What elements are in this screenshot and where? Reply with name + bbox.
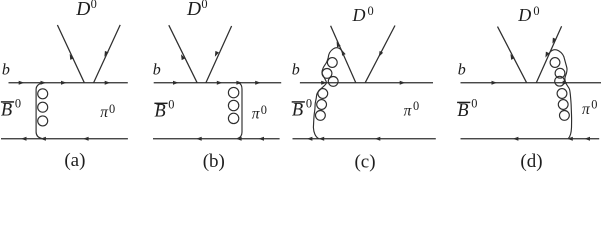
svg-text:B: B xyxy=(154,101,165,121)
gluon (a) loop 2 xyxy=(38,102,48,112)
svg-text:0: 0 xyxy=(201,0,207,11)
svg-text:b: b xyxy=(153,61,161,78)
b quark line (c) xyxy=(300,82,433,84)
arrow on b line (a) 2 at gluon vertex xyxy=(41,81,47,85)
gluon (d) rail xyxy=(549,50,572,139)
arrow on ubar leg (d) upper xyxy=(552,38,556,44)
svg-text:(c): (c) xyxy=(354,151,375,172)
arrow on c leg (b) xyxy=(181,54,185,60)
svg-text:D: D xyxy=(186,0,201,20)
arrow on b line (a) 3 xyxy=(61,81,67,85)
gluon (c) loop 1 xyxy=(327,58,337,68)
gluon (d) loop 1 xyxy=(550,58,560,68)
label B0bar bar (d) xyxy=(457,102,470,103)
svg-text:π: π xyxy=(404,102,413,119)
arrow on u line (b) 4 xyxy=(255,81,261,85)
gluon (d) loop 5 xyxy=(558,100,568,110)
dbar spectator line (b) xyxy=(153,138,280,140)
gluon (c) loop 4 xyxy=(318,89,328,99)
svg-text:b: b xyxy=(2,61,10,78)
svg-text:0: 0 xyxy=(261,103,267,117)
svg-text:B: B xyxy=(457,101,468,121)
svg-text:0: 0 xyxy=(15,96,21,110)
svg-text:(a): (a) xyxy=(64,150,85,171)
c quark leg (d) xyxy=(498,27,527,83)
arrow on dbar line (b) 2 at gluon vertex xyxy=(236,137,242,141)
gluon (b) loop 3 xyxy=(228,113,238,123)
svg-text:b: b xyxy=(292,61,300,78)
arrow on dbar line (a) 3 xyxy=(83,137,89,141)
arrow on dbar line (c) 1 xyxy=(307,137,313,141)
arrow on dbar line (b) 3 xyxy=(258,137,264,141)
dbar spectator line (a) xyxy=(1,138,128,140)
svg-text:π: π xyxy=(582,101,591,118)
arrow on dbar line (c) 2 at gluon vertex xyxy=(319,137,325,141)
svg-text:D: D xyxy=(352,5,366,25)
arrow on u line (c) after vertex xyxy=(400,81,406,85)
b quark line (a) xyxy=(9,82,128,84)
gluon (c) loop 2 xyxy=(322,69,332,79)
svg-text:0: 0 xyxy=(168,98,174,112)
gluon (c) rail xyxy=(313,48,342,139)
arrow on ubar leg (d) lower at gluon vertex xyxy=(545,52,549,58)
svg-text:0: 0 xyxy=(109,102,115,116)
svg-text:π: π xyxy=(252,106,261,123)
arrow on c leg (d) xyxy=(510,54,514,60)
svg-text:0: 0 xyxy=(413,99,419,113)
label B0bar bar (c) xyxy=(292,101,305,102)
gluon (d) loop 6 xyxy=(560,111,570,121)
gluon (b) loop 2 xyxy=(228,100,238,110)
c quark leg (a) xyxy=(57,25,84,83)
label B0bar bar (b) xyxy=(154,103,167,104)
gluon (d) loop 3 xyxy=(555,76,565,86)
b quark line (b) xyxy=(154,82,282,84)
ubar quark leg (c) xyxy=(365,26,395,83)
arrow on ubar leg (a) xyxy=(104,51,108,57)
gluon (d) loop 4 xyxy=(557,89,567,99)
svg-text:0: 0 xyxy=(471,97,477,111)
svg-text:0: 0 xyxy=(91,0,97,11)
arrow on c leg (c) lower at gluon vertex xyxy=(342,50,346,56)
arrow on dbar line (d) 1 xyxy=(513,137,519,141)
ubar quark leg (d) xyxy=(536,26,561,82)
arrow on ubar leg (b) xyxy=(215,51,219,57)
arrow on c leg (c) upper xyxy=(337,42,341,48)
gluon (a) rail xyxy=(36,83,42,139)
gluon (c) loop 3 xyxy=(328,77,338,87)
svg-text:0: 0 xyxy=(368,4,374,18)
arrow on dbar line (d) 2 at gluon vertex xyxy=(567,137,573,141)
dbar spectator line (d) xyxy=(461,138,600,140)
gluon (b) loop 1 xyxy=(228,87,238,97)
ubar quark leg (b) xyxy=(206,26,232,83)
arrow on dbar line (b) 1 xyxy=(196,137,202,141)
arrow on dbar line (a) 1 xyxy=(21,137,27,141)
gluon (a) loop 3 xyxy=(38,116,48,126)
arrow on b line (d) 1 xyxy=(492,81,498,85)
svg-text:(b): (b) xyxy=(203,151,225,172)
arrow on ubar leg (c) xyxy=(379,51,383,57)
svg-text:0: 0 xyxy=(533,4,539,18)
arrow on dbar line (c) 3 xyxy=(375,137,381,141)
arrow on dbar line (d) 3 xyxy=(584,137,590,141)
svg-text:(d): (d) xyxy=(520,151,542,172)
label B0bar bar (a) xyxy=(1,101,14,102)
svg-text:B: B xyxy=(292,101,303,121)
svg-text:B: B xyxy=(1,101,12,121)
b quark line (d) xyxy=(461,82,602,84)
arrow on u quark line (a) after vertex xyxy=(105,81,111,85)
gluon (c) loop 6 xyxy=(316,111,326,121)
arrow on c quark leg (a) xyxy=(70,54,74,60)
svg-text:b: b xyxy=(458,61,466,78)
gluon (b) rail xyxy=(238,83,243,139)
svg-text:0: 0 xyxy=(306,96,312,110)
gluon (d) loop 2 xyxy=(555,68,565,78)
arrow on u line (b) 3 at gluon vertex xyxy=(236,81,242,85)
gluon (a) loop 1 xyxy=(38,89,48,99)
c quark leg (b) xyxy=(169,25,197,82)
arrow on u line (d) at gluon crossing xyxy=(563,81,569,85)
svg-text:D: D xyxy=(75,0,90,20)
arrow on b line (b) 1 xyxy=(173,81,179,85)
arrow on b line (c) 1 at gluon crossing xyxy=(321,81,327,85)
svg-text:0: 0 xyxy=(591,97,597,111)
c quark leg (c) xyxy=(331,26,356,83)
dbar spectator line (c) xyxy=(293,138,436,140)
arrow on dbar line (a) 2 at gluon vertex xyxy=(40,137,46,141)
ubar quark leg (a) xyxy=(94,25,121,83)
gluon (c) loop 5 xyxy=(317,100,327,110)
svg-text:π: π xyxy=(100,104,109,121)
arrow on u line (b) 2 xyxy=(217,81,223,85)
svg-text:D: D xyxy=(517,5,531,25)
arrow on b line (a) 1 xyxy=(19,81,25,85)
